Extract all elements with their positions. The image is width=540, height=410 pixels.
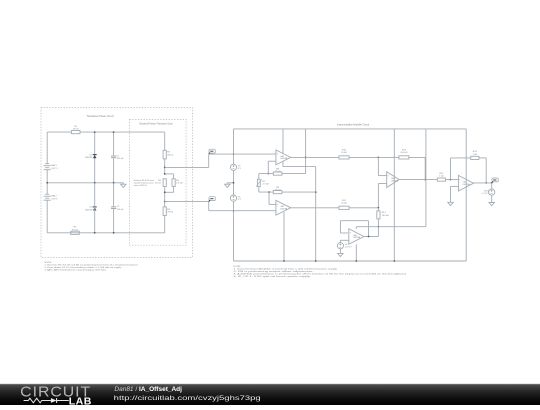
svg-text:1N4148: 1N4148 xyxy=(85,209,93,211)
svg-text:5 V: 5 V xyxy=(238,199,242,201)
svg-text:BAT1: BAT1 xyxy=(51,164,57,167)
ground split supply xyxy=(227,182,233,184)
svg-text:100 kΩ: 100 kΩ xyxy=(382,215,389,217)
svg-text:121 Ω: 121 Ω xyxy=(155,183,161,185)
wire R4R5 split xyxy=(165,173,174,175)
wire bridge branch top xyxy=(164,132,166,150)
op-amp OA1 xyxy=(276,150,291,165)
resistor R16 xyxy=(471,156,479,159)
voltmeter MV1 xyxy=(491,183,493,189)
wire mid rail xyxy=(47,182,123,184)
svg-text:470 Ω: 470 Ω xyxy=(72,229,78,231)
svg-text:10 kΩ: 10 kΩ xyxy=(341,152,347,154)
wire OA3 inv input xyxy=(378,183,386,185)
resistor R8 xyxy=(273,172,282,175)
wire OA4 output xyxy=(474,182,492,184)
wire OA1 Vminus route xyxy=(282,161,284,166)
resistor R13 feedback OA3 xyxy=(378,157,380,159)
wire top rail +5 xyxy=(47,131,165,133)
resistor R14 xyxy=(377,208,379,211)
battery BAT1 xyxy=(45,163,49,165)
svg-text:-0.75 V: -0.75 V xyxy=(482,193,490,195)
wire OA3 output row xyxy=(399,179,450,181)
svg-text:5 V: 5 V xyxy=(238,168,242,170)
resistor R5 xyxy=(173,174,175,179)
wire OA1 Vplus xyxy=(282,129,284,154)
svg-text:270 Ω: 270 Ω xyxy=(275,190,281,192)
source V6 xyxy=(337,243,343,249)
node flag vout xyxy=(492,178,498,182)
wire OA4 supply column xyxy=(465,129,467,261)
wire R6 to bottom rail xyxy=(164,216,166,233)
resistor R10 xyxy=(339,156,349,159)
svg-text:3. BAT1, BAT2 9-Volt batteries: 3. BAT1, BAT2 9-Volt batteries, measured… xyxy=(44,269,106,272)
capacitor C1 xyxy=(113,132,115,156)
wire bottom rail -5 xyxy=(47,232,165,234)
svg-text:LM358A: LM358A xyxy=(280,208,288,211)
svg-text:10 kΩ: 10 kΩ xyxy=(341,203,347,205)
svg-text:100 µF: 100 µF xyxy=(117,158,125,160)
wire OA2 output row xyxy=(291,207,379,209)
svg-text:4.3 kΩ: 4.3 kΩ xyxy=(176,183,183,185)
svg-text:LAB: LAB xyxy=(69,397,92,406)
svg-text:-0.75 V: -0.75 V xyxy=(345,247,353,249)
svg-text:4. IP, OP-1: 4.5V split rail b: 4. IP, OP-1: 4.5V split rail bench power… xyxy=(234,275,312,278)
wire left rail xyxy=(46,132,48,164)
svg-text:2.7 kΩ: 2.7 kΩ xyxy=(262,184,269,186)
wire out+ to OA1 xyxy=(209,153,276,155)
wire OA4 inputs xyxy=(451,179,459,181)
wire offset supply column xyxy=(425,129,427,227)
svg-text:Instrumentation Amplifier Circ: Instrumentation Amplifier Circuit xyxy=(337,123,369,126)
ground OA4 noninv xyxy=(450,186,452,202)
wire OA2 inverting input xyxy=(268,191,270,193)
svg-text:LM358A: LM358A xyxy=(353,236,361,239)
wire OA1 inverting input xyxy=(268,160,276,162)
resistor R15 xyxy=(437,178,445,181)
resistor R1 xyxy=(71,131,80,134)
box Simulated Pressure Transducer Circuit xyxy=(129,119,186,245)
svg-text:LM358A: LM358A xyxy=(280,157,288,160)
wire OA3 supply column xyxy=(393,129,395,261)
logo resistor zigzag and diode xyxy=(24,398,51,403)
op-amp OA3 xyxy=(387,172,399,188)
source V4 xyxy=(230,195,236,201)
wire OA5 noninv input xyxy=(340,239,348,241)
svg-text:1N4148: 1N4148 xyxy=(85,157,93,159)
potentiometer R7 xyxy=(258,174,260,180)
wire node to flag out+ xyxy=(165,166,209,168)
op-amp OA5 xyxy=(355,227,357,229)
wire R9 row xyxy=(259,191,316,193)
wire +5 supply rail xyxy=(234,128,467,130)
wire supply column to -5 rail xyxy=(233,201,235,261)
source V3 xyxy=(230,164,236,170)
op-amp OA2 xyxy=(276,200,291,215)
wire OA3 noninv input xyxy=(377,157,379,175)
node flag out- xyxy=(209,197,215,201)
resistor R4 xyxy=(163,179,166,187)
wire OA5 output xyxy=(364,236,379,238)
wire supply left column xyxy=(233,129,235,164)
battery BAT2 xyxy=(45,193,49,195)
svg-text:1 kΩ: 1 kΩ xyxy=(439,176,444,178)
wire OA1 output row xyxy=(291,156,379,158)
resistor R2 xyxy=(71,231,80,234)
svg-text:100 µF: 100 µF xyxy=(117,209,125,211)
svg-text:value of 350 Ω: value of 350 Ω xyxy=(134,185,148,187)
wire -5 supply rail xyxy=(234,260,467,262)
svg-text:100 kΩ: 100 kΩ xyxy=(400,152,407,154)
ground V6 xyxy=(338,253,343,256)
svg-text:470 Ω: 470 Ω xyxy=(73,129,79,131)
wire OA4 feedback riser xyxy=(450,158,452,180)
svg-text:1. Instrumentation Amplifier i: 1. Instrumentation Amplifier is powered … xyxy=(234,267,339,270)
ground voltmeter xyxy=(489,203,494,206)
resistor R6 xyxy=(164,202,166,207)
wire out- to OA2 xyxy=(208,202,210,211)
svg-text:8.67 V: 8.67 V xyxy=(51,198,58,200)
wire OA2 Vminus xyxy=(283,212,285,261)
node flag out+ xyxy=(209,149,215,153)
resistor R3 xyxy=(163,150,166,159)
svg-text:3. A 4W/10k potentiometer is p: 3. A 4W/10k potentiometer is performing … xyxy=(234,273,408,276)
svg-text:2. R8 is performing output off: 2. R8 is performing output offset adjust… xyxy=(234,270,315,273)
svg-text:LM358A: LM358A xyxy=(391,179,399,182)
wire OA5 Vminus xyxy=(355,244,357,261)
svg-text:BAT2: BAT2 xyxy=(51,195,57,198)
svg-text:750 Ω: 750 Ω xyxy=(167,154,173,156)
svg-text:Transducer Power Circuit: Transducer Power Circuit xyxy=(87,115,114,118)
svg-text:1. Resistors R3, R4, R5 and R6: 1. Resistors R3, R4, R5 and R6 are perfo… xyxy=(44,264,139,267)
diode D1 zener xyxy=(94,132,96,183)
resistor R9 xyxy=(273,191,282,194)
wire OA5 feedback loop xyxy=(340,232,347,234)
svg-text:2. Zener diodes D1, D2 are pro: 2. Zener diodes D1, D2 are providing a s… xyxy=(44,266,122,269)
op-amp OA4 xyxy=(458,175,473,191)
svg-text:270 Ω: 270 Ω xyxy=(275,171,281,173)
wire left rail lower xyxy=(46,200,48,233)
svg-text:Simulated Pressure Transducer: Simulated Pressure Transducer Circuit xyxy=(139,122,173,125)
svg-text:http://circuitlab.com/cvzyj5gh: http://circuitlab.com/cvzyj5ghs73pg xyxy=(114,395,261,402)
diode D2 zener xyxy=(93,206,97,208)
wire R4R5 join xyxy=(164,186,166,201)
ground mid rail xyxy=(122,183,124,184)
box Transducer Power Circuit xyxy=(41,108,193,258)
wire feedback column OA1 xyxy=(305,129,307,174)
wire R3 to node out+ xyxy=(164,159,166,174)
wire battery mid xyxy=(46,170,48,195)
svg-text:8.67 V: 8.67 V xyxy=(51,168,58,170)
wire offset row xyxy=(356,226,426,228)
wire R8 row xyxy=(259,173,306,175)
capacitor C2 xyxy=(113,183,115,207)
svg-text:Dan81 / IA_Offset_Adj: Dan81 / IA_Offset_Adj xyxy=(114,386,182,393)
wire node to flag out- xyxy=(164,201,166,203)
resistor R11 xyxy=(339,206,349,209)
svg-text:1 kΩ: 1 kΩ xyxy=(473,154,478,156)
svg-text:750 Ω: 750 Ω xyxy=(167,212,173,214)
